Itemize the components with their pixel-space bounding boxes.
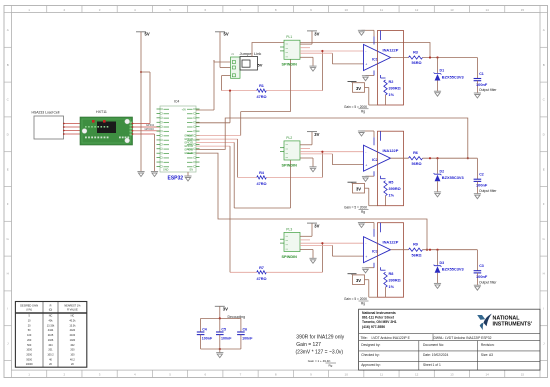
svg-text:40k: 40k: [48, 320, 53, 323]
svg-text:15: 15: [521, 8, 525, 12]
svg-text:C5: C5: [221, 328, 226, 332]
svg-text:C4: C4: [202, 328, 207, 332]
svg-text:BZX55C3V3: BZX55C3V3: [442, 175, 465, 180]
svg-text:R8: R8: [389, 272, 394, 276]
svg-text:R VALUE: R VALUE: [67, 308, 78, 311]
svg-text:PL1: PL1: [286, 35, 292, 39]
svg-text:(416) 977-5550: (416) 977-5550: [362, 325, 385, 329]
svg-text:R2: R2: [389, 80, 394, 84]
svg-text:Jumper Link: Jumper Link: [240, 51, 262, 56]
svg-text:7: 7: [240, 8, 242, 12]
svg-text:10000: 10000: [26, 363, 34, 366]
svg-text:10: 10: [345, 8, 349, 12]
svg-text:GPIO4: GPIO4: [146, 123, 154, 127]
svg-text:6: 6: [204, 373, 206, 377]
svg-text:3V: 3V: [356, 187, 361, 192]
svg-text:ESP32: ESP32: [168, 176, 184, 182]
svg-text:R4: R4: [259, 171, 265, 175]
svg-text:SPINDIN: SPINDIN: [282, 163, 298, 167]
svg-text:2105: 2105: [48, 334, 54, 337]
svg-text:(23mV * 127 = ~3.0v): (23mV * 127 = ~3.0v): [296, 349, 344, 355]
svg-text:3: 3: [99, 8, 101, 12]
svg-text:C2: C2: [479, 173, 484, 177]
svg-text:E: E: [543, 167, 545, 171]
svg-text:40.2k: 40.2k: [69, 320, 76, 323]
svg-text:3V: 3V: [314, 132, 319, 137]
svg-text:9: 9: [310, 373, 312, 377]
svg-text:GPIO35: GPIO35: [184, 152, 193, 155]
svg-text:(Ω): (Ω): [49, 308, 53, 311]
svg-text:3V: 3V: [314, 224, 319, 229]
svg-text:1%: 1%: [389, 194, 395, 198]
svg-text:B: B: [543, 63, 545, 67]
svg-text:2: 2: [64, 8, 66, 12]
svg-text:D: D: [7, 133, 10, 137]
svg-text:5000: 5000: [26, 358, 32, 361]
svg-text:Output filter: Output filter: [479, 280, 497, 284]
svg-text:Approved by:: Approved by:: [361, 363, 381, 367]
svg-text:4: 4: [134, 373, 136, 377]
svg-text:Output filter: Output filter: [479, 88, 497, 92]
svg-text:INA122P: INA122P: [383, 148, 399, 153]
svg-text:1026: 1026: [48, 339, 54, 342]
svg-text:D: D: [543, 133, 546, 137]
svg-text:5: 5: [169, 373, 171, 377]
svg-text:(V/V): (V/V): [26, 308, 32, 311]
svg-text:EN: EN: [190, 169, 194, 172]
svg-text:13.33k: 13.33k: [47, 324, 55, 327]
svg-text:D2: D2: [440, 169, 445, 173]
svg-text:C3: C3: [479, 264, 484, 268]
svg-text:INSTRUMENTS’: INSTRUMENTS’: [493, 322, 533, 328]
svg-text:390RΩ: 390RΩ: [389, 87, 401, 91]
svg-text:200: 200: [70, 349, 75, 352]
svg-text:G: G: [7, 237, 10, 241]
svg-text:390R for INA129 only: 390R for INA129 only: [296, 335, 344, 341]
svg-text:402: 402: [70, 344, 75, 347]
svg-text:H: H: [7, 272, 9, 276]
svg-text:390RΩ: 390RΩ: [389, 279, 401, 283]
svg-text:40: 40: [49, 358, 52, 361]
svg-text:C6: C6: [243, 328, 248, 332]
svg-text:IC1: IC1: [372, 57, 378, 61]
svg-text:NC: NC: [49, 315, 53, 318]
svg-text:Output filter: Output filter: [479, 189, 497, 193]
svg-text:E: E: [7, 167, 9, 171]
svg-text:5V: 5V: [145, 32, 150, 37]
svg-text:SPINDIN: SPINDIN: [282, 63, 298, 67]
svg-text:PL3: PL3: [286, 227, 292, 231]
svg-text:Revision:: Revision:: [481, 343, 495, 347]
svg-text:IC4: IC4: [174, 100, 179, 104]
svg-text:H: H: [543, 272, 545, 276]
svg-text:J: J: [543, 341, 545, 345]
svg-text:1: 1: [28, 373, 30, 377]
svg-text:8: 8: [275, 373, 277, 377]
svg-text:LVDT Arduino INA122IP E: LVDT Arduino INA122IP E: [372, 336, 411, 340]
svg-text:Title:: Title:: [361, 336, 368, 340]
svg-text:+: +: [365, 255, 367, 259]
svg-text:J: J: [7, 341, 9, 345]
svg-text:BZX55C3V3: BZX55C3V3: [442, 75, 465, 80]
svg-text:SPINDIN: SPINDIN: [282, 255, 298, 259]
svg-text:INA122P: INA122P: [383, 240, 399, 245]
svg-text:9: 9: [310, 8, 312, 12]
svg-text:C: C: [543, 98, 546, 102]
svg-text:861-111 Peter Street: 861-111 Peter Street: [362, 316, 395, 320]
svg-text:10: 10: [28, 320, 31, 323]
svg-text:Sheet 1 of 1: Sheet 1 of 1: [423, 363, 441, 367]
svg-text:200: 200: [27, 339, 32, 342]
svg-text:8: 8: [275, 8, 277, 12]
svg-text:PL2: PL2: [286, 136, 292, 140]
svg-text:DESIRED GAIN: DESIRED GAIN: [20, 305, 38, 308]
svg-text:2100: 2100: [70, 334, 76, 337]
svg-text:Rg: Rg: [329, 363, 333, 367]
svg-text:40.2: 40.2: [70, 358, 75, 361]
svg-text:Designed by:: Designed by:: [361, 343, 380, 347]
svg-text:G: G: [543, 237, 546, 241]
svg-text:1%: 1%: [389, 93, 395, 97]
svg-text:5V: 5V: [258, 63, 263, 68]
svg-text:A: A: [543, 28, 545, 32]
svg-text:4420: 4420: [70, 329, 76, 332]
svg-text:2: 2: [64, 373, 66, 377]
svg-text:R6: R6: [413, 151, 418, 155]
svg-text:I: I: [543, 307, 544, 311]
svg-text:R5: R5: [389, 181, 394, 185]
svg-text:50: 50: [28, 329, 31, 332]
svg-text:C1: C1: [479, 72, 484, 76]
svg-text:Checked by:: Checked by:: [361, 353, 379, 357]
svg-text:201: 201: [48, 349, 53, 352]
svg-text:5: 5: [169, 8, 171, 12]
svg-text:J1: J1: [231, 52, 234, 56]
svg-text:R1: R1: [259, 84, 264, 88]
svg-text:20: 20: [71, 363, 74, 366]
svg-text:11: 11: [380, 373, 383, 377]
svg-text:100: 100: [27, 334, 32, 337]
svg-text:14: 14: [485, 373, 489, 377]
svg-text:Gain = 127: Gain = 127: [296, 342, 321, 348]
svg-text:F: F: [543, 202, 545, 206]
svg-text:4444: 4444: [48, 329, 54, 332]
svg-text:3V: 3V: [356, 278, 361, 283]
svg-text:B: B: [7, 63, 9, 67]
svg-text:20: 20: [49, 363, 52, 366]
svg-text:6: 6: [204, 8, 206, 12]
svg-text:12: 12: [415, 373, 419, 377]
svg-text:13: 13: [450, 373, 454, 377]
svg-text:100nF: 100nF: [476, 183, 488, 188]
svg-text:C: C: [7, 98, 10, 102]
svg-text:R7: R7: [259, 266, 264, 270]
svg-text:47RΩ: 47RΩ: [256, 277, 266, 281]
svg-text:100nF: 100nF: [476, 274, 488, 279]
svg-text:1: 1: [28, 8, 30, 12]
svg-text:D1: D1: [440, 69, 445, 73]
svg-text:NC: NC: [71, 315, 75, 318]
svg-text:Rg: Rg: [361, 109, 365, 113]
svg-text:IC2: IC2: [372, 158, 378, 162]
svg-text:Gain = 1 + 49.4K: Gain = 1 + 49.4K: [308, 359, 331, 363]
svg-text:1%: 1%: [389, 285, 395, 289]
svg-text:R9: R9: [413, 243, 418, 247]
svg-text:+: +: [365, 63, 367, 67]
svg-text:Size: A3: Size: A3: [481, 353, 493, 357]
svg-text:13.3k: 13.3k: [69, 324, 76, 327]
svg-text:DWNL: LVDT Arduino INA122IP ES: DWNL: LVDT Arduino INA122IP ESP32: [434, 336, 492, 340]
svg-text:100: 100: [70, 353, 75, 356]
svg-text:3V: 3V: [314, 31, 319, 36]
svg-text:R: R: [50, 305, 52, 308]
svg-text:Rg: Rg: [361, 302, 365, 306]
svg-text:100nF: 100nF: [221, 337, 232, 341]
svg-text:14: 14: [485, 8, 489, 12]
svg-text:100nF: 100nF: [202, 337, 213, 341]
svg-text:Document No:: Document No:: [423, 343, 444, 347]
svg-text:HSA233 Load Cell: HSA233 Load Cell: [32, 111, 60, 115]
svg-text:INA122P: INA122P: [383, 47, 399, 52]
svg-text:100.2: 100.2: [47, 353, 54, 356]
svg-text:NATIONAL: NATIONAL: [493, 315, 521, 321]
svg-text:3: 3: [99, 373, 101, 377]
svg-text:390RΩ: 390RΩ: [389, 187, 401, 191]
svg-text:10: 10: [345, 373, 349, 377]
svg-text:Toronto, ON M5V 2H1: Toronto, ON M5V 2H1: [362, 320, 397, 324]
svg-text:13: 13: [450, 8, 454, 12]
svg-text:12: 12: [415, 8, 419, 12]
svg-text:500: 500: [27, 344, 32, 347]
svg-text:11: 11: [380, 8, 383, 12]
svg-text:A: A: [7, 28, 9, 32]
svg-text:100nF: 100nF: [476, 82, 488, 87]
svg-text:IC3: IC3: [372, 250, 378, 254]
svg-text:GND: GND: [163, 169, 169, 172]
svg-text:56RΩ: 56RΩ: [412, 61, 422, 65]
svg-text:GPIO16: GPIO16: [145, 127, 155, 131]
svg-text:D3: D3: [440, 261, 445, 265]
svg-text:Date: 19/02/2024: Date: 19/02/2024: [423, 353, 448, 357]
svg-text:4: 4: [134, 8, 136, 12]
svg-text:3V: 3V: [356, 86, 361, 91]
svg-text:1020: 1020: [70, 339, 76, 342]
svg-text:100nF: 100nF: [242, 337, 253, 341]
svg-text:56RΩ: 56RΩ: [412, 253, 422, 257]
svg-text:7: 7: [240, 373, 242, 377]
svg-text:47RΩ: 47RΩ: [256, 95, 266, 99]
svg-text:HXT11: HXT11: [96, 110, 107, 114]
svg-text:R3: R3: [413, 50, 418, 54]
svg-text:NEAREST 1%: NEAREST 1%: [64, 305, 81, 308]
svg-text:47RΩ: 47RΩ: [256, 182, 266, 186]
svg-text:5: 5: [29, 315, 31, 318]
svg-text:404: 404: [48, 344, 53, 347]
svg-text:F: F: [7, 202, 9, 206]
svg-text:1000: 1000: [26, 349, 32, 352]
svg-text:15: 15: [521, 373, 525, 377]
svg-text:+: +: [365, 163, 367, 167]
svg-text:BZX55C3V3: BZX55C3V3: [442, 267, 465, 272]
svg-text:+5V: +5V: [182, 109, 187, 112]
svg-text:National Instruments: National Instruments: [362, 311, 396, 315]
svg-text:I: I: [7, 307, 8, 311]
svg-text:56RΩ: 56RΩ: [412, 162, 422, 166]
svg-text:5V: 5V: [224, 32, 229, 37]
svg-text:Rg: Rg: [361, 210, 365, 214]
svg-text:3V: 3V: [223, 306, 228, 311]
svg-text:2000: 2000: [26, 353, 32, 356]
svg-text:20: 20: [28, 324, 31, 327]
